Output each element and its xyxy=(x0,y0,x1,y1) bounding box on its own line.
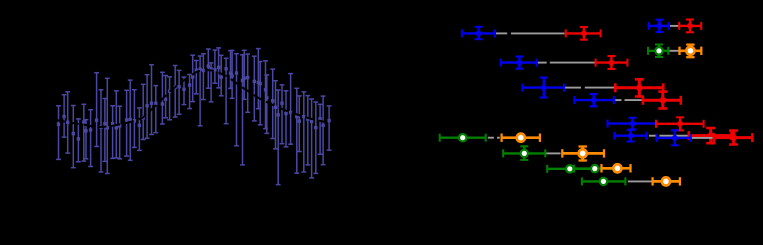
row4 xyxy=(565,87,581,89)
model curve xyxy=(56,70,332,127)
row2 xyxy=(670,25,679,27)
rowB xyxy=(488,137,494,139)
row5 xyxy=(615,99,621,101)
row3 xyxy=(538,62,547,64)
row1 xyxy=(496,32,507,34)
rowE xyxy=(628,180,652,182)
rowC xyxy=(546,152,561,154)
row8 xyxy=(691,137,714,139)
rowA xyxy=(670,50,680,52)
row7 xyxy=(649,135,656,137)
rowD xyxy=(547,168,592,170)
row6 xyxy=(608,122,657,124)
left panel: error-bar lightcurve xyxy=(56,48,331,185)
